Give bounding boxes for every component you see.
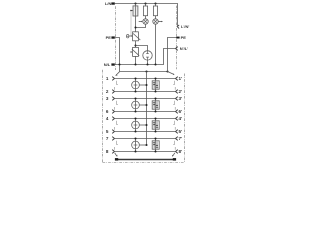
terminal PE prime square xyxy=(176,37,179,39)
node row 2 G1 xyxy=(134,90,136,92)
node F1-H1 xyxy=(134,26,136,28)
wire N/L bus xyxy=(115,49,176,65)
terminal 2 chevron xyxy=(112,90,114,94)
arrow at MOV xyxy=(130,51,133,53)
node row 7 G4 xyxy=(134,137,136,139)
wire G1 center electrode xyxy=(139,84,146,86)
node row 2 D1 xyxy=(154,90,156,92)
terminal 5&apos; chevron xyxy=(176,130,178,134)
suppressor diode box D2 xyxy=(152,101,159,109)
contact hook pair 1 left xyxy=(115,81,119,90)
switch blade shield-left xyxy=(115,153,118,157)
svg-text:8: 8 xyxy=(106,149,109,154)
node row 1 D1 xyxy=(154,77,156,79)
svg-text:2: 2 xyxy=(106,89,109,94)
arrow to lamp H1 xyxy=(139,21,143,23)
enclosure top box left border xyxy=(115,6,117,70)
gas discharge tube G3 xyxy=(132,119,140,132)
svg-text:6': 6' xyxy=(179,109,183,114)
switch blade rail-right xyxy=(168,72,175,75)
node rail to GDT common xyxy=(145,70,147,72)
wire row 4 xyxy=(115,118,176,120)
wire row 2 xyxy=(115,91,176,93)
node N/L-PE crossing xyxy=(118,63,120,65)
wire row 5 xyxy=(115,131,176,133)
terminal 5 chevron xyxy=(112,130,114,134)
switch blade rail-left xyxy=(115,72,119,76)
node L/N-F2 xyxy=(144,2,146,4)
arrow from lamp H2 xyxy=(159,21,163,23)
lamp H2 xyxy=(153,19,158,24)
node L/N-F3 xyxy=(154,2,156,4)
node row 3 D2 xyxy=(154,97,156,99)
svg-text:2': 2' xyxy=(179,89,183,94)
spark gap F4 xyxy=(143,51,152,60)
node row 6 G2 xyxy=(134,110,136,112)
wire node to spark gap xyxy=(136,46,148,51)
arrow theta xyxy=(129,35,133,37)
terminal 6&apos; chevron xyxy=(176,110,178,114)
wire D3 vertical xyxy=(155,119,157,132)
node G1 common xyxy=(145,84,147,86)
node N/L-MOV xyxy=(134,63,136,65)
node row 5 D3 xyxy=(154,130,156,132)
wire PE rail xyxy=(120,71,168,73)
terminal 6 chevron xyxy=(112,110,114,114)
wire lamp H2 down to N/L bus xyxy=(155,24,157,64)
svg-text:L/N: L/N xyxy=(105,1,112,6)
terminal 8 chevron xyxy=(112,150,114,154)
wire lamp H1 to F1 path xyxy=(136,24,146,27)
wire G2 center electrode xyxy=(139,104,146,106)
node N/L-sparkgap xyxy=(146,63,148,65)
wire L/N bus xyxy=(115,4,178,27)
terminal 1&apos; chevron xyxy=(176,77,178,81)
ground shield line xyxy=(117,159,175,161)
node row 8 D4 xyxy=(154,150,156,152)
terminal 3 chevron xyxy=(112,97,114,101)
thermal link F1 to K1 xyxy=(130,11,132,37)
ground terminal left square xyxy=(115,158,118,161)
wire D2 vertical xyxy=(155,99,157,112)
fuse F3 xyxy=(153,4,157,19)
svg-text:PE: PE xyxy=(181,35,187,40)
node G3 common xyxy=(145,124,147,126)
wire PE to right terminal xyxy=(168,38,177,72)
node rail right xyxy=(166,70,168,72)
terminal 4 chevron xyxy=(112,117,114,121)
svg-text:N/L: N/L xyxy=(104,62,111,67)
node row 6 D2 xyxy=(154,110,156,112)
wire GDT common vertical xyxy=(146,72,148,146)
terminal N'/L' chevron xyxy=(176,47,178,51)
node row 4 D3 xyxy=(154,117,156,119)
enclosure bottom box right border xyxy=(184,74,186,163)
suppressor diode box D1 xyxy=(152,81,159,89)
wire K1 to MOV xyxy=(135,41,137,48)
contact hook pair 3 right xyxy=(173,121,175,130)
node row 5 G3 xyxy=(134,130,136,132)
node row 4 G3 xyxy=(134,117,136,119)
node G2 common xyxy=(145,104,147,106)
wire row 7 xyxy=(115,138,176,140)
node row 1 G1 xyxy=(134,77,136,79)
wire row 1 xyxy=(115,78,176,80)
terminal 7 chevron xyxy=(112,137,114,141)
node row 7 D4 xyxy=(154,137,156,139)
svg-text:7: 7 xyxy=(106,136,109,141)
gas discharge tube G1 xyxy=(132,79,140,92)
svg-text:3': 3' xyxy=(179,96,183,101)
contact hook pair 1 right xyxy=(173,81,175,90)
contact hook pair 4 left xyxy=(115,141,119,150)
node row 8 G4 xyxy=(134,150,136,152)
suppressor diode box D3 xyxy=(152,121,159,129)
terminal PE square xyxy=(111,36,114,38)
wire row 6 xyxy=(115,111,176,113)
terminal 4&apos; chevron xyxy=(176,117,178,121)
svg-text:N'/L': N'/L' xyxy=(180,46,188,51)
wire D1 vertical xyxy=(155,79,157,92)
wire spark gap to N/L bus xyxy=(147,60,149,64)
svg-text:1': 1' xyxy=(179,76,183,81)
fuse F2 xyxy=(143,4,147,19)
svg-text:1: 1 xyxy=(106,76,109,81)
wire row 8 xyxy=(115,151,176,153)
wire PE down xyxy=(115,38,120,72)
gas discharge tube G4 xyxy=(132,139,140,152)
svg-text:8': 8' xyxy=(179,149,183,154)
contact hook pair 2 right xyxy=(173,101,175,110)
gas discharge tube G2 xyxy=(132,99,140,112)
svg-text:6: 6 xyxy=(106,109,109,114)
wire MOV to N/L bus xyxy=(135,56,137,64)
enclosure bottom box left border xyxy=(102,70,104,163)
svg-text:4: 4 xyxy=(106,116,109,121)
suppressor diode box D4 xyxy=(152,141,159,149)
terminal N/L square xyxy=(111,63,114,65)
node N/L-lamp xyxy=(154,63,156,65)
varistor MOV xyxy=(132,47,139,56)
wire row 3 xyxy=(115,98,176,100)
wire D4 vertical xyxy=(155,139,157,152)
terminal 2&apos; chevron xyxy=(176,90,178,94)
svg-text:5: 5 xyxy=(106,129,109,134)
svg-text:PE: PE xyxy=(106,35,112,40)
svg-text:7': 7' xyxy=(179,136,183,141)
switch blade shield-right xyxy=(172,153,175,157)
lamp H1 xyxy=(143,19,148,24)
terminal L'/N' chevron xyxy=(177,25,179,29)
node F1 left tap xyxy=(130,10,133,12)
enclosure bottom box bottom border xyxy=(103,162,185,164)
node MOV top xyxy=(134,44,136,46)
svg-text:5': 5' xyxy=(179,129,183,134)
terminal 3&apos; chevron xyxy=(176,97,178,101)
fuse F1 xyxy=(133,6,138,16)
wire G4 center electrode xyxy=(139,144,146,146)
node G4 common xyxy=(145,144,147,146)
terminal 8&apos; chevron xyxy=(176,150,178,154)
terminal 1 chevron xyxy=(112,77,114,81)
svg-text:4': 4' xyxy=(179,116,183,121)
disconnector K1 xyxy=(133,32,141,41)
contact hook pair 2 left xyxy=(115,101,119,110)
ground terminal right square xyxy=(173,158,176,161)
thermal disconnector theta label xyxy=(126,34,129,38)
wire G3 center electrode xyxy=(139,124,146,126)
wire F1 main path xyxy=(135,4,137,32)
contact hook pair 4 right xyxy=(173,141,175,150)
terminal 7&apos; chevron xyxy=(176,137,178,141)
terminal L/N square xyxy=(111,2,114,4)
node row 3 G2 xyxy=(134,97,136,99)
enclosure top box right border xyxy=(176,6,178,70)
contact hook pair 3 left xyxy=(115,121,119,130)
svg-text:L'/N': L'/N' xyxy=(181,24,189,29)
svg-text:3: 3 xyxy=(106,96,109,101)
node L/N-F1 xyxy=(134,2,136,4)
